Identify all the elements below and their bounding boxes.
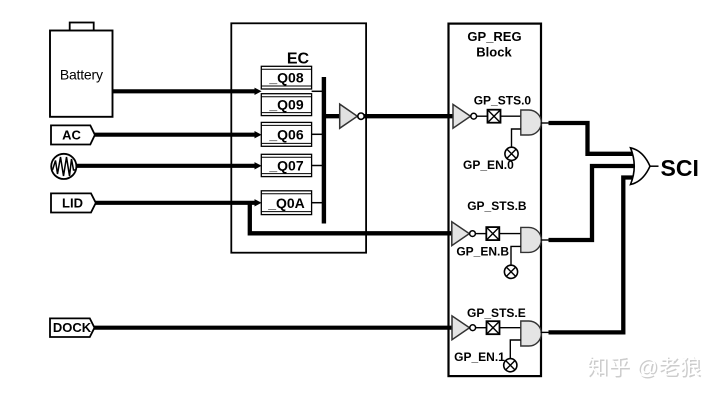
wire XOR box to AND gate row2 <box>499 233 521 235</box>
svg-text:GP_STS.E: GP_STS.E <box>467 306 526 320</box>
svg-text:_Q07: _Q07 <box>268 157 303 173</box>
stub AND output row3 <box>541 331 550 333</box>
svg-text:EC: EC <box>287 51 310 68</box>
svg-text:LID: LID <box>62 195 83 210</box>
wire XOR box to AND gate row1 <box>501 115 522 117</box>
svg-text:Block: Block <box>476 45 512 60</box>
EC block outline <box>231 23 366 252</box>
svg-text:GP_EN.0: GP_EN.0 <box>463 158 514 172</box>
input tag LID <box>51 193 96 212</box>
wire enable to AND gate row1 <box>512 129 521 148</box>
svg-text:_Q06: _Q06 <box>268 127 303 143</box>
inverter U1 (EC output) <box>340 104 364 128</box>
wire GP_STS.0 output to OR gate <box>549 123 633 154</box>
register _Q0A <box>261 191 311 215</box>
OR gate G4 (SCI) <box>631 148 659 185</box>
wire EC inverter to GP_STS.0 inverter <box>364 114 453 118</box>
svg-text:_Q0A: _Q0A <box>267 195 305 211</box>
wire LID tap down to GP_STS.B input <box>250 205 452 234</box>
inverter U4 (GP_STS.E) <box>452 316 476 340</box>
svg-text:DOCK: DOCK <box>53 320 92 335</box>
GP_REG block outline <box>449 24 542 377</box>
register _Q08 <box>261 66 311 89</box>
stub Q06 to bus <box>312 133 323 135</box>
wire XOR box to AND gate row3 <box>500 327 522 329</box>
svg-text:_Q09: _Q09 <box>268 97 303 113</box>
enable source circle-X GP_EN.0 <box>505 147 518 160</box>
register _Q09 <box>261 94 311 116</box>
status bit box (boxed X) row2 <box>486 227 499 240</box>
register _Q06 <box>261 122 311 146</box>
wire inverter to XOR box row2 <box>475 233 486 235</box>
input tag DOCK <box>50 318 95 337</box>
enable source circle-X GP_EN.1 <box>504 359 517 372</box>
svg-text:AC: AC <box>62 127 81 142</box>
AND gate G2 <box>521 227 542 252</box>
battery BT1 <box>50 23 113 117</box>
register _Q07 <box>261 154 311 176</box>
status bit box (boxed X) row3 <box>487 321 500 334</box>
stub Q0A to bus <box>312 202 323 204</box>
AND gate G3 <box>521 321 542 346</box>
wire AC source to Q07 <box>76 162 262 169</box>
wire inverter to XOR box row3 <box>476 327 487 329</box>
stub Q08/Q09 to bus <box>312 90 323 92</box>
status bit box (boxed X) row1 <box>488 110 501 123</box>
wire enable to AND gate row2 <box>511 246 521 265</box>
AND gate G1 <box>521 110 542 135</box>
wire inverter to XOR box row1 <box>477 115 488 117</box>
svg-text:SCI: SCI <box>661 155 699 181</box>
svg-text:GP_EN.1: GP_EN.1 <box>454 350 505 364</box>
svg-text:Battery: Battery <box>60 67 103 83</box>
stub AND output row2 <box>541 239 550 241</box>
input tag AC <box>51 125 95 144</box>
stub AND output row1 <box>541 122 550 124</box>
wire LID to Q0A <box>95 199 262 206</box>
svg-text:GP_STS.0: GP_STS.0 <box>474 93 532 107</box>
wire enable to AND gate row3 <box>510 340 521 359</box>
wire battery to Q08/Q09 <box>112 88 261 95</box>
enable source circle-X GP_EN.B <box>504 265 517 278</box>
wire AC to Q06 <box>94 131 262 138</box>
wire GP_STS.E output to OR gate <box>549 178 634 333</box>
wire bus to EC inverter <box>324 114 340 118</box>
wire GP_STS.B output to OR gate <box>549 166 635 240</box>
inverter U3 (GP_STS.B) <box>452 222 476 246</box>
svg-text:GP_STS.B: GP_STS.B <box>467 199 527 213</box>
AC source symbol (circle with noise waveform) <box>51 154 76 179</box>
inverter U2 (GP_STS.0) <box>453 104 477 128</box>
watermark <box>587 356 703 381</box>
wire DOCK to GP_STS.E inverter <box>95 326 453 330</box>
svg-text:GP_EN.B: GP_EN.B <box>456 244 509 258</box>
stub Q07 to bus <box>312 165 323 167</box>
EC output bus (vertical) <box>322 77 326 224</box>
svg-text:_Q08: _Q08 <box>268 70 303 86</box>
svg-text:GP_REG: GP_REG <box>467 29 521 44</box>
svg-text:知乎 @老狼: 知乎 @老狼 <box>587 356 701 379</box>
